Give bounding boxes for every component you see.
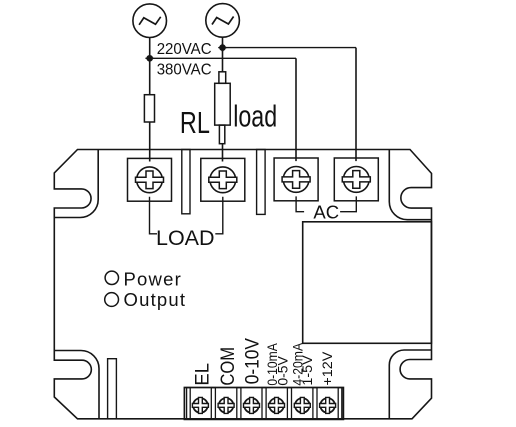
svg-text:COM: COM bbox=[217, 347, 239, 386]
svg-text:0-10V: 0-10V bbox=[240, 337, 262, 384]
svg-text:380VAC: 380VAC bbox=[157, 61, 212, 79]
svg-text:AC: AC bbox=[313, 201, 339, 222]
svg-text:LOAD: LOAD bbox=[156, 226, 215, 250]
svg-text:0-5V: 0-5V bbox=[275, 355, 291, 385]
svg-text:+12V: +12V bbox=[319, 351, 335, 386]
svg-text:RL: RL bbox=[180, 105, 210, 140]
svg-text:Power: Power bbox=[124, 268, 182, 289]
svg-text:220VAC: 220VAC bbox=[157, 41, 212, 59]
svg-text:1-5V: 1-5V bbox=[299, 355, 315, 386]
svg-text:EL: EL bbox=[192, 363, 214, 386]
svg-text:Output: Output bbox=[124, 289, 187, 310]
svg-text:load: load bbox=[233, 98, 277, 133]
